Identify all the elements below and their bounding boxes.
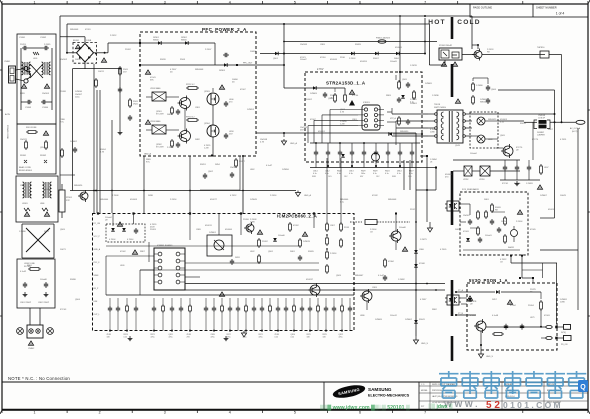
svg-text:1N4121: 1N4121 bbox=[20, 139, 28, 141]
svg-text:SB56008: SB56008 bbox=[195, 69, 204, 71]
svg-text:KTC74: KTC74 bbox=[532, 139, 539, 141]
svg-text:0.22: 0.22 bbox=[291, 337, 295, 339]
svg-text:POWER CORD: POWER CORD bbox=[6, 125, 8, 140]
svg-text:3: 3 bbox=[164, 1, 166, 5]
svg-text:33K05: 33K05 bbox=[308, 251, 315, 253]
svg-text:F801 FUSE: F801 FUSE bbox=[26, 127, 37, 129]
svg-text:5V3_FEEDBACK: 5V3_FEEDBACK bbox=[462, 188, 479, 191]
svg-text:47003: 47003 bbox=[463, 231, 469, 233]
svg-text:ACIN: ACIN bbox=[5, 113, 10, 116]
svg-text:47019: 47019 bbox=[85, 29, 91, 31]
svg-text:CON 2P: CON 2P bbox=[538, 117, 546, 119]
svg-text:450V37: 450V37 bbox=[306, 279, 314, 281]
svg-text:4.7K: 4.7K bbox=[100, 151, 105, 153]
svg-text:OUT_L: OUT_L bbox=[94, 314, 100, 316]
svg-text:SB560: SB560 bbox=[181, 40, 187, 42]
svg-text:KTC03: KTC03 bbox=[60, 309, 67, 311]
svg-text:STR2A153D_1_A: STR2A153D_1_A bbox=[326, 81, 366, 86]
svg-text:0.1u07: 0.1u07 bbox=[266, 165, 273, 167]
svg-text:SMD: SMD bbox=[312, 176, 317, 178]
svg-text:450V11: 450V11 bbox=[205, 225, 213, 227]
svg-text:PFC_POWER_2_A: PFC_POWER_2_A bbox=[202, 27, 247, 32]
svg-text:4: 4 bbox=[229, 1, 231, 5]
svg-text:KTC3199: KTC3199 bbox=[156, 147, 164, 149]
svg-text:47092: 47092 bbox=[293, 225, 299, 227]
svg-text:D3SB: D3SB bbox=[86, 40, 92, 42]
svg-text:SWITCHING: SWITCHING bbox=[434, 107, 446, 109]
svg-text:3: 3 bbox=[164, 411, 166, 414]
svg-text:47003: 47003 bbox=[544, 315, 550, 317]
svg-text:0.22: 0.22 bbox=[275, 337, 279, 339]
svg-text:LP803 BEAD: LP803 BEAD bbox=[150, 120, 161, 123]
svg-text:1.2M06: 1.2M06 bbox=[476, 85, 484, 87]
svg-text:100u04: 100u04 bbox=[470, 153, 478, 155]
svg-text:2.2K07: 2.2K07 bbox=[205, 49, 212, 51]
svg-text:C O: C O bbox=[421, 384, 425, 386]
svg-text:2.2K06: 2.2K06 bbox=[167, 147, 174, 149]
svg-text:SHEET NUMBER: SHEET NUMBER bbox=[536, 6, 557, 10]
svg-text:1/4W49: 1/4W49 bbox=[250, 199, 258, 201]
svg-text:4.7K04: 4.7K04 bbox=[109, 239, 116, 241]
svg-text:1/4W: 1/4W bbox=[560, 301, 565, 303]
svg-text:25V07: 25V07 bbox=[239, 161, 246, 163]
svg-text:VCC_P: VCC_P bbox=[94, 236, 101, 238]
svg-text:470u: 470u bbox=[259, 337, 263, 339]
svg-text:SB560: SB560 bbox=[480, 101, 487, 103]
svg-text:4.7K64: 4.7K64 bbox=[127, 239, 134, 241]
svg-text:450V59: 450V59 bbox=[360, 61, 368, 63]
svg-text:33K86: 33K86 bbox=[70, 279, 77, 281]
svg-text:5: 5 bbox=[294, 411, 296, 414]
svg-text:10K56: 10K56 bbox=[75, 59, 82, 61]
svg-text:KTC3199: KTC3199 bbox=[156, 114, 164, 116]
svg-text:VRT_A: VRT_A bbox=[390, 117, 397, 120]
svg-text:1N4102: 1N4102 bbox=[60, 59, 68, 61]
svg-text:░▒ jdwx ▒: ░▒ jdwx ▒ bbox=[428, 403, 453, 410]
svg-text:2.2K94: 2.2K94 bbox=[170, 199, 177, 201]
svg-text:470u: 470u bbox=[339, 337, 343, 339]
svg-text:10K71: 10K71 bbox=[60, 249, 67, 251]
svg-text:CN801: CN801 bbox=[4, 61, 11, 63]
svg-text:FB_P: FB_P bbox=[94, 288, 99, 290]
svg-text:2.2K52: 2.2K52 bbox=[110, 35, 117, 37]
svg-text:HOT: HOT bbox=[428, 19, 446, 26]
svg-text:25V08: 25V08 bbox=[60, 91, 67, 93]
svg-text:450V02: 450V02 bbox=[305, 99, 313, 101]
svg-text:BEAD CORE: BEAD CORE bbox=[19, 166, 31, 169]
svg-text:KTC: KTC bbox=[60, 121, 65, 123]
svg-text:470u: 470u bbox=[211, 337, 215, 339]
svg-text:ELECTRO-MECHANICS: ELECTRO-MECHANICS bbox=[368, 394, 410, 398]
svg-text:1/4W09: 1/4W09 bbox=[310, 93, 318, 95]
svg-text:450V08: 450V08 bbox=[130, 199, 138, 201]
svg-text:7: 7 bbox=[424, 1, 426, 5]
svg-text:SB56090: SB56090 bbox=[400, 131, 409, 133]
svg-text:10K54: 10K54 bbox=[501, 221, 508, 223]
svg-text:4.7K: 4.7K bbox=[340, 111, 345, 113]
svg-text:CX802: CX802 bbox=[40, 37, 47, 39]
svg-text:47032: 47032 bbox=[372, 195, 378, 197]
svg-text:4.7K91: 4.7K91 bbox=[560, 139, 567, 141]
svg-text:QP804: QP804 bbox=[204, 123, 210, 125]
svg-text:25V02: 25V02 bbox=[125, 49, 132, 51]
svg-text:100u03: 100u03 bbox=[390, 61, 398, 63]
svg-text:450V66: 450V66 bbox=[225, 229, 233, 231]
svg-text:100u: 100u bbox=[361, 173, 365, 175]
svg-text:PC_ON: PC_ON bbox=[94, 223, 101, 225]
svg-text:RP812 0.2: RP812 0.2 bbox=[186, 84, 195, 86]
svg-text:THP850: THP850 bbox=[537, 47, 545, 49]
svg-text:47005: 47005 bbox=[530, 229, 536, 231]
svg-text:Q: Q bbox=[580, 384, 586, 391]
svg-text:5V3Q_PSON_1_A: 5V3Q_PSON_1_A bbox=[469, 278, 508, 283]
svg-text:0.1u: 0.1u bbox=[340, 201, 344, 203]
svg-text:1/4W02: 1/4W02 bbox=[405, 319, 413, 321]
svg-text:100u68: 100u68 bbox=[40, 279, 48, 281]
svg-text:0.1u07: 0.1u07 bbox=[378, 275, 385, 277]
svg-text:GND_S: GND_S bbox=[421, 343, 429, 345]
svg-text:0.1u: 0.1u bbox=[409, 173, 413, 175]
svg-text:10K74: 10K74 bbox=[98, 71, 105, 73]
svg-text:0.1u02: 0.1u02 bbox=[20, 271, 27, 273]
svg-text:CX803: CX803 bbox=[25, 107, 32, 109]
svg-text:4: 4 bbox=[229, 411, 231, 414]
svg-text:KTC01: KTC01 bbox=[502, 183, 509, 185]
svg-text:LF801: LF801 bbox=[22, 203, 29, 205]
svg-text:2: 2 bbox=[99, 1, 101, 5]
svg-text:RT801: RT801 bbox=[66, 197, 73, 199]
svg-text:SB56008: SB56008 bbox=[70, 29, 79, 31]
svg-text:CX804: CX804 bbox=[42, 107, 49, 109]
svg-text:100u74: 100u74 bbox=[390, 315, 398, 317]
svg-text:100u01: 100u01 bbox=[485, 235, 493, 237]
svg-text:33K41: 33K41 bbox=[419, 319, 426, 321]
svg-text:100u68: 100u68 bbox=[399, 227, 407, 229]
svg-text:33K91: 33K91 bbox=[200, 164, 207, 166]
svg-text:RP813 0.2: RP813 0.2 bbox=[186, 117, 195, 119]
svg-text:0.22: 0.22 bbox=[124, 337, 128, 339]
svg-text:33K83: 33K83 bbox=[355, 44, 362, 46]
svg-text:0.1u: 0.1u bbox=[410, 101, 414, 103]
svg-text:C801 2200P: C801 2200P bbox=[20, 302, 32, 304]
svg-text:10%: 10% bbox=[408, 176, 412, 178]
svg-text:450V33: 450V33 bbox=[548, 209, 556, 211]
svg-text:47002: 47002 bbox=[120, 251, 126, 253]
svg-text:450V01: 450V01 bbox=[318, 131, 326, 133]
svg-text:SAMSUNG: SAMSUNG bbox=[368, 387, 392, 392]
svg-text:2.2K85: 2.2K85 bbox=[44, 44, 51, 46]
svg-text:GND_A: GND_A bbox=[290, 142, 298, 145]
svg-text:6: 6 bbox=[359, 1, 361, 5]
svg-text:0.1u: 0.1u bbox=[385, 173, 389, 175]
svg-text:5V3Q: 5V3Q bbox=[561, 332, 566, 334]
svg-text:T801S: T801S bbox=[434, 104, 441, 106]
svg-text:RV801: RV801 bbox=[20, 155, 27, 157]
svg-text:33K20: 33K20 bbox=[160, 59, 167, 61]
svg-text:2.7KV: 2.7KV bbox=[317, 68, 324, 71]
svg-text:C802 2200P: C802 2200P bbox=[38, 302, 50, 304]
svg-text:2.2K03: 2.2K03 bbox=[349, 58, 356, 60]
svg-text:450V77: 450V77 bbox=[210, 199, 218, 201]
svg-text:NTC: NTC bbox=[66, 200, 71, 202]
svg-text:470u: 470u bbox=[243, 337, 247, 339]
svg-text:IC801S: IC801S bbox=[363, 102, 370, 104]
svg-text:SB56067: SB56067 bbox=[355, 275, 364, 277]
svg-text:47007: 47007 bbox=[310, 119, 316, 121]
svg-text:25V06: 25V06 bbox=[243, 219, 250, 221]
svg-text:KTC: KTC bbox=[146, 161, 151, 163]
svg-text:1 of 4: 1 of 4 bbox=[556, 12, 565, 16]
svg-text:1.2M13: 1.2M13 bbox=[410, 65, 418, 67]
svg-text:PT_A: PT_A bbox=[458, 289, 464, 292]
svg-text:100u07: 100u07 bbox=[300, 59, 308, 61]
svg-text:GND_A: GND_A bbox=[94, 248, 101, 251]
svg-text:SB56004: SB56004 bbox=[100, 199, 109, 201]
svg-text:1.2M03: 1.2M03 bbox=[526, 183, 534, 185]
svg-text:25V93: 25V93 bbox=[20, 44, 27, 46]
svg-text:SB56026: SB56026 bbox=[74, 185, 83, 187]
svg-text:10%: 10% bbox=[328, 176, 332, 178]
svg-text:1N4169: 1N4169 bbox=[300, 44, 308, 46]
svg-text:1/4W69: 1/4W69 bbox=[375, 319, 383, 321]
svg-text:1/4W53: 1/4W53 bbox=[247, 109, 255, 111]
svg-text:0.1u: 0.1u bbox=[397, 173, 401, 175]
svg-text:1.2M: 1.2M bbox=[204, 147, 209, 149]
svg-text:100u: 100u bbox=[75, 96, 79, 98]
svg-text:2.2K04: 2.2K04 bbox=[516, 221, 523, 223]
svg-text:10K43: 10K43 bbox=[560, 195, 567, 197]
svg-text:470u: 470u bbox=[169, 337, 173, 339]
svg-text:1.2M06: 1.2M06 bbox=[19, 231, 27, 233]
svg-text:1: 1 bbox=[34, 411, 36, 414]
svg-text:33K54: 33K54 bbox=[520, 123, 527, 125]
svg-text:AC_OUT_A: AC_OUT_A bbox=[570, 127, 581, 130]
svg-text:COLD: COLD bbox=[457, 19, 480, 26]
svg-text:1N4106: 1N4106 bbox=[230, 167, 238, 169]
svg-text:LP802 BEAD: LP802 BEAD bbox=[150, 87, 161, 90]
svg-text:1/4W02: 1/4W02 bbox=[70, 141, 78, 143]
svg-text:ILIM: ILIM bbox=[94, 301, 98, 303]
svg-text:47010: 47010 bbox=[320, 57, 326, 59]
svg-text:PFC_OUT: PFC_OUT bbox=[243, 63, 253, 65]
svg-text:0.1u: 0.1u bbox=[313, 173, 317, 175]
svg-text:25V04: 25V04 bbox=[528, 305, 535, 307]
svg-text:450V44: 450V44 bbox=[330, 59, 338, 61]
svg-text:LINE: LINE bbox=[40, 203, 45, 205]
svg-text:(HOT): (HOT) bbox=[572, 131, 578, 133]
svg-text:1: 1 bbox=[34, 1, 36, 5]
svg-text:470u: 470u bbox=[151, 337, 155, 339]
svg-text:CN802: CN802 bbox=[28, 348, 35, 350]
svg-text:1/4W05: 1/4W05 bbox=[425, 83, 433, 85]
svg-text:1.2M02: 1.2M02 bbox=[398, 279, 406, 281]
svg-text:47004: 47004 bbox=[510, 305, 516, 307]
svg-text:10K63: 10K63 bbox=[250, 51, 257, 53]
svg-text:7: 7 bbox=[424, 411, 426, 414]
svg-text:1/4W50: 1/4W50 bbox=[282, 169, 290, 171]
svg-text:1.2M: 1.2M bbox=[340, 123, 345, 125]
svg-text:LP852: LP852 bbox=[463, 179, 468, 181]
svg-text:1/4W01: 1/4W01 bbox=[209, 232, 217, 234]
svg-text:0.1u: 0.1u bbox=[373, 173, 377, 175]
svg-text:1/4W36: 1/4W36 bbox=[75, 91, 83, 93]
svg-text:0.1u: 0.1u bbox=[337, 173, 341, 175]
svg-text:4.7K52: 4.7K52 bbox=[230, 195, 237, 197]
svg-text:GND_S: GND_S bbox=[486, 356, 494, 358]
svg-text:0 1 0 1 . C O M: 0 1 0 1 . C O M bbox=[503, 400, 561, 410]
svg-text:25V02: 25V02 bbox=[262, 241, 269, 243]
svg-text:NOTE * N.C. : No Connection: NOTE * N.C. : No Connection bbox=[8, 376, 70, 381]
svg-text:1.2M30: 1.2M30 bbox=[432, 95, 440, 97]
svg-text:LP853: LP853 bbox=[479, 179, 484, 181]
svg-text:SMD: SMD bbox=[392, 176, 397, 178]
svg-text:PFC_F: PFC_F bbox=[94, 262, 101, 264]
svg-text:47007: 47007 bbox=[240, 89, 246, 91]
svg-text:FS802 2A/250V: FS802 2A/250V bbox=[376, 37, 391, 40]
svg-text:100u06: 100u06 bbox=[278, 235, 286, 237]
svg-text:100u80: 100u80 bbox=[44, 189, 52, 191]
svg-text:BD801-BD804: BD801-BD804 bbox=[19, 170, 33, 172]
svg-text:1/4W: 1/4W bbox=[430, 131, 435, 133]
svg-text:KTC04: KTC04 bbox=[352, 95, 359, 97]
svg-text:2.2K34: 2.2K34 bbox=[330, 253, 337, 255]
svg-text:BD801: BD801 bbox=[73, 40, 80, 42]
svg-text:MODEL: MODEL bbox=[421, 390, 428, 392]
svg-text:ICM2PCB060_2_A: ICM2PCB060_2_A bbox=[277, 214, 317, 219]
svg-text:1.2M71: 1.2M71 bbox=[420, 239, 428, 241]
svg-text:47008: 47008 bbox=[419, 263, 425, 265]
svg-text:RV802: RV802 bbox=[40, 155, 47, 157]
svg-text:5: 5 bbox=[294, 1, 296, 5]
svg-text:1/4W07: 1/4W07 bbox=[540, 195, 548, 197]
svg-text:JUMPER: JUMPER bbox=[537, 134, 545, 136]
svg-text:GND_A: GND_A bbox=[304, 194, 312, 197]
svg-text:1N4105: 1N4105 bbox=[42, 93, 50, 95]
svg-text:6: 6 bbox=[359, 411, 361, 414]
svg-text:47084: 47084 bbox=[388, 261, 394, 263]
svg-text:▒▒▓ www.jdwx.com ▓▒░▒ 520101 ▒: ▒▒▓ www.jdwx.com ▓▒░▒ 520101 ▒ bbox=[320, 404, 410, 411]
svg-text:2.2K34: 2.2K34 bbox=[270, 195, 277, 197]
svg-text:QP803: QP803 bbox=[204, 91, 210, 93]
svg-text:5 2: 5 2 bbox=[486, 400, 500, 411]
svg-text:1/4W: 1/4W bbox=[250, 221, 255, 223]
svg-text:SB560: SB560 bbox=[153, 40, 159, 42]
svg-text:PAGE OUTLINE: PAGE OUTLINE bbox=[473, 6, 492, 10]
svg-text:0.1u: 0.1u bbox=[349, 173, 353, 175]
svg-text:GND_A: GND_A bbox=[144, 153, 152, 156]
svg-text:4.7K: 4.7K bbox=[260, 141, 265, 143]
svg-text:0.1u: 0.1u bbox=[500, 121, 504, 123]
svg-text:33K07: 33K07 bbox=[373, 58, 380, 60]
svg-text:1/4W19: 1/4W19 bbox=[303, 241, 311, 243]
svg-text:PS_ON: PS_ON bbox=[561, 344, 568, 346]
svg-text:DP803: DP803 bbox=[219, 70, 225, 72]
svg-text:VREF: VREF bbox=[94, 275, 100, 277]
svg-text:0.1u39: 0.1u39 bbox=[470, 315, 477, 317]
svg-text:CX801: CX801 bbox=[19, 37, 26, 39]
svg-text:450V55: 450V55 bbox=[395, 47, 403, 49]
svg-text:2: 2 bbox=[99, 411, 101, 414]
svg-text:4.7K08: 4.7K08 bbox=[112, 195, 119, 197]
svg-text:0.1u08: 0.1u08 bbox=[492, 315, 499, 317]
svg-text:4.7K87: 4.7K87 bbox=[420, 299, 427, 301]
svg-text:KA431: KA431 bbox=[508, 246, 515, 249]
svg-text:RY801 RELAY: RY801 RELAY bbox=[439, 44, 453, 47]
svg-text:SB56008: SB56008 bbox=[388, 199, 397, 201]
svg-text:1N4107: 1N4107 bbox=[463, 215, 471, 217]
svg-text:4.7K05: 4.7K05 bbox=[440, 249, 447, 251]
svg-text:25V03: 25V03 bbox=[150, 229, 157, 231]
